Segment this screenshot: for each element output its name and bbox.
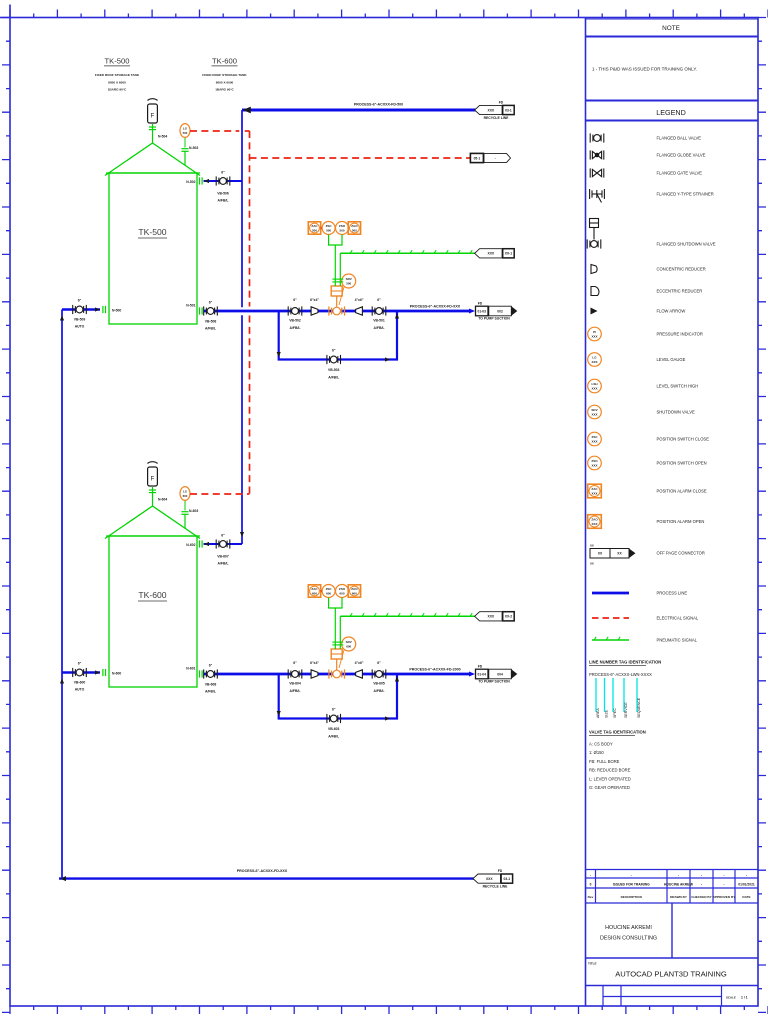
- svg-text:1 - THIS P&ID WAS ISSUED FOR T: 1 - THIS P&ID WAS ISSUED FOR TRAINING ON…: [592, 67, 697, 72]
- svg-text:CHECKED BY: CHECKED BY: [691, 895, 712, 899]
- svg-text:6": 6": [209, 301, 213, 305]
- svg-text:A/FB/L: A/FB/L: [374, 326, 385, 330]
- svg-text:AUTOCAD PLANT3D TRAINING: AUTOCAD PLANT3D TRAINING: [615, 970, 727, 979]
- svg-text:XXX: XXX: [488, 615, 495, 619]
- svg-text:XXX: XXX: [591, 412, 597, 416]
- flame arrestor TK-600: [148, 462, 158, 486]
- svg-text:VB-502: VB-502: [289, 319, 301, 323]
- svg-text:SPEC: SPEC: [613, 708, 617, 718]
- valve VB-604: [288, 669, 302, 678]
- pneumatic signal line: [340, 615, 477, 617]
- svg-text:PNEUMATIC SIGNAL: PNEUMATIC SIGNAL: [657, 638, 698, 643]
- svg-text:4"x6": 4"x6": [355, 661, 364, 665]
- valve VB-508: [204, 306, 218, 315]
- svg-text:-: -: [723, 883, 724, 887]
- nozzle N-503: [184, 151, 186, 165]
- valve VB-607: [216, 539, 230, 548]
- svg-text:-: -: [701, 883, 702, 887]
- nozzle N-504: [152, 124, 154, 143]
- legend flow arrow: [591, 308, 598, 315]
- position alarm open ZAO-600: [348, 585, 360, 597]
- off page connector bottom recycle: [473, 874, 501, 883]
- svg-text:6": 6": [332, 708, 336, 712]
- position switch open ZSO-500: [336, 222, 349, 235]
- svg-text:XXX: XXX: [591, 522, 597, 526]
- svg-text:RECYCLE LINE: RECYCLE LINE: [483, 884, 509, 888]
- svg-text:APPROVED BY: APPROVED BY: [713, 895, 736, 899]
- nozzle N-604: [152, 487, 154, 506]
- wire vertical recycle header: [241, 110, 243, 307]
- svg-text:SIZE: SIZE: [605, 709, 609, 718]
- svg-text:F: F: [151, 114, 155, 120]
- svg-text:-: -: [590, 873, 591, 877]
- svg-text:600: 600: [352, 591, 357, 595]
- NOTE header box: [586, 19, 759, 37]
- svg-text:N-503: N-503: [189, 146, 198, 150]
- svg-text:600: 600: [312, 591, 317, 595]
- wire auto inlet TK-600: [62, 671, 100, 673]
- svg-text:N-601: N-601: [186, 667, 195, 671]
- legend position switch close: [588, 432, 602, 446]
- pneumatic links to bubbles: [329, 598, 342, 649]
- svg-text:XXX: XXX: [486, 877, 493, 881]
- svg-text:PROCESS-6"-ACXXX-FD-XXX: PROCESS-6"-ACXXX-FD-XXX: [237, 869, 288, 873]
- svg-text:004: 004: [497, 672, 503, 676]
- wire bypass TK-600: [279, 674, 397, 719]
- nozzle N-501: [200, 307, 203, 314]
- legend process line: [592, 592, 629, 595]
- svg-text:01-03: 01-03: [478, 309, 487, 313]
- position alarm close ZAC-600: [308, 585, 320, 597]
- svg-text:FIXED ROOF STORAGE TANK: FIXED ROOF STORAGE TANK: [95, 73, 140, 77]
- svg-text:XXX: XXX: [591, 386, 597, 390]
- svg-text:XXX: XXX: [488, 252, 495, 256]
- svg-text:A/FB/L: A/FB/L: [218, 562, 229, 566]
- svg-text:A/FB/L: A/FB/L: [328, 735, 339, 739]
- svg-text:PROCESS-6"-ACXXX-FD-XXX: PROCESS-6"-ACXXX-FD-XXX: [410, 305, 461, 309]
- svg-text:NOTE: NOTE: [662, 25, 680, 32]
- svg-text:6": 6": [332, 349, 336, 353]
- svg-text:500: 500: [183, 131, 188, 135]
- flame arrestor TK-500: [148, 99, 158, 123]
- svg-text:XX-2: XX-2: [505, 615, 512, 619]
- svg-text:FIXED ROOF STORAGE TANK: FIXED ROOF STORAGE TANK: [202, 73, 247, 77]
- svg-text:VB-605: VB-605: [373, 682, 385, 686]
- svg-text:TO PUMP SUCTION: TO PUMP SUCTION: [478, 680, 510, 684]
- signal link: [321, 590, 322, 592]
- valve VB-502: [288, 306, 302, 315]
- svg-text:500: 500: [312, 228, 317, 232]
- svg-text:XXX: XXX: [591, 360, 597, 364]
- svg-text:TO PUMP SUCTION: TO PUMP SUCTION: [478, 317, 510, 321]
- svg-text:POSITION ALARM CLOSE: POSITION ALARM CLOSE: [657, 489, 707, 494]
- svg-text:XX: XX: [590, 544, 594, 548]
- wire top recycle process line: [242, 109, 478, 112]
- svg-text:500: 500: [346, 281, 351, 285]
- svg-text:FLOW ARROW: FLOW ARROW: [657, 309, 686, 314]
- LEGEND header box: [586, 101, 759, 121]
- revision table: [586, 870, 759, 904]
- svg-text:A/FB/L: A/FB/L: [218, 199, 229, 203]
- wire outlet TK-600: [204, 673, 471, 676]
- wire bypass TK-500: [279, 311, 397, 360]
- nozzle N-600: [95, 670, 100, 674]
- svg-text:AUTO: AUTO: [75, 325, 85, 329]
- svg-text:-: -: [631, 873, 632, 877]
- off page connector pneumatic: [475, 249, 503, 258]
- svg-text:8000 X 6000: 8000 X 6000: [216, 81, 234, 85]
- svg-text:A: CS BODY: A: CS BODY: [589, 742, 613, 747]
- legend off page connector: [590, 549, 610, 559]
- line number leaders: [596, 678, 637, 712]
- svg-text:VB-604: VB-604: [289, 682, 301, 686]
- svg-text:500: 500: [339, 228, 344, 232]
- legend flanged gate valve: [590, 168, 604, 177]
- svg-text:600: 600: [339, 591, 344, 595]
- svg-text:VB-501: VB-501: [373, 319, 385, 323]
- svg-text:FD: FD: [478, 301, 483, 305]
- off page connector top recycle: [475, 105, 503, 114]
- svg-text:002: 002: [497, 309, 503, 313]
- svg-text:SCALE: SCALE: [726, 996, 736, 1000]
- shutdown valve SDV-600: [329, 669, 345, 678]
- nozzle N-601: [200, 670, 203, 677]
- valve VB-506: [216, 176, 230, 185]
- svg-text:TK-600: TK-600: [212, 57, 237, 66]
- signal link: [349, 227, 350, 229]
- legend flanged shutdown valve: [590, 219, 599, 240]
- svg-text:A/FB/L: A/FB/L: [328, 376, 339, 380]
- level gauge 600: [180, 487, 190, 501]
- wire inlet TK-600: [204, 543, 243, 545]
- svg-text:PRESSURE INDICATOR: PRESSURE INDICATOR: [657, 332, 703, 337]
- svg-text:DESCRIPTION: DESCRIPTION: [621, 895, 643, 899]
- svg-text:600: 600: [326, 591, 331, 595]
- svg-text:ISSUED FOR TRAINING: ISSUED FOR TRAINING: [613, 883, 650, 887]
- electrical signal from 500: [190, 130, 239, 132]
- svg-text:LEVEL SWITCH HIGH: LEVEL SWITCH HIGH: [657, 384, 699, 389]
- svg-text:A/FB/L: A/FB/L: [205, 327, 216, 331]
- svg-text:05-1: 05-1: [474, 156, 481, 160]
- svg-text:TK-500: TK-500: [138, 227, 166, 237]
- svg-text:FD: FD: [498, 869, 503, 873]
- shutdown valve SDV-500: [329, 306, 345, 315]
- svg-text:N-603: N-603: [189, 509, 198, 513]
- off page connector outlet: [469, 671, 475, 676]
- valve VB-608: [204, 669, 218, 678]
- svg-text:N-600: N-600: [112, 672, 121, 676]
- right panel divider: [585, 18, 587, 1007]
- position switch open ZSO-600: [336, 585, 349, 598]
- legend position alarm close: [588, 484, 602, 498]
- svg-text:A/FB/L: A/FB/L: [290, 689, 301, 693]
- nozzle N-502: [204, 179, 209, 183]
- svg-text:FB: FULL BORE: FB: FULL BORE: [589, 759, 620, 764]
- svg-text:N-602: N-602: [186, 543, 195, 547]
- svg-text:6": 6": [209, 664, 213, 668]
- instrument bubble SDV-500: [339, 287, 344, 305]
- svg-text:POSITION SWITCH CLOSE: POSITION SWITCH CLOSE: [657, 437, 710, 442]
- svg-text:FLANGED GATE VALVE: FLANGED GATE VALVE: [657, 171, 703, 176]
- svg-text:ECCENTRIC REDUCER: ECCENTRIC REDUCER: [657, 289, 703, 294]
- svg-text:VB-600: VB-600: [74, 681, 86, 685]
- legend concentric reducer: [591, 265, 597, 274]
- svg-text:N-504: N-504: [158, 135, 167, 139]
- svg-text:DESIGN CONSULTING: DESIGN CONSULTING: [600, 936, 657, 942]
- legend level gauge: [588, 353, 602, 367]
- svg-text:1BARG 90°C: 1BARG 90°C: [108, 88, 127, 92]
- svg-text:03-1: 03-1: [504, 877, 511, 881]
- svg-text:LEVEL GAUGE: LEVEL GAUGE: [657, 357, 686, 362]
- svg-text:0: 0: [590, 883, 592, 887]
- legend flanged globe valve: [590, 150, 604, 159]
- svg-text:-: -: [701, 873, 702, 877]
- svg-text:RB: REDUCED BORE: RB: REDUCED BORE: [589, 768, 631, 773]
- pneumatic links to bubbles: [329, 235, 342, 286]
- nozzle N-603: [184, 514, 186, 528]
- svg-text:VB-509: VB-509: [74, 318, 86, 322]
- electrical signal to off page: [250, 157, 471, 159]
- concentric reducer 6x4: [311, 670, 318, 678]
- electrical signal trunk vertical: [249, 131, 251, 307]
- legend position switch open: [588, 456, 602, 470]
- svg-text:6": 6": [78, 299, 82, 303]
- svg-text:PROCESS-6"-ACXXX-FD-2000: PROCESS-6"-ACXXX-FD-2000: [409, 668, 460, 672]
- svg-text:DRAWN BY: DRAWN BY: [670, 895, 688, 899]
- position alarm close ZAC-500: [308, 222, 320, 234]
- svg-text:600: 600: [183, 494, 188, 498]
- svg-text:-: -: [746, 873, 747, 877]
- svg-text:6": 6": [221, 171, 225, 175]
- svg-text:L: LEVER OPERATED: L: LEVER OPERATED: [589, 776, 631, 781]
- svg-text:FD: FD: [478, 664, 483, 668]
- tank TK-600: [105, 506, 200, 687]
- svg-text:VB-607: VB-607: [217, 555, 229, 559]
- off page connector electrical signal: [470, 153, 483, 162]
- concentric reducer 4x6: [356, 307, 363, 315]
- svg-text:03-1: 03-1: [505, 108, 512, 112]
- level gauge 500: [180, 124, 190, 138]
- svg-text:HOUCINE AKREMI: HOUCINE AKREMI: [605, 925, 652, 931]
- legend electrical signal: [592, 617, 629, 619]
- svg-text:VB-506: VB-506: [217, 192, 229, 196]
- off page connector outlet: [469, 308, 475, 313]
- bottom strip boxes: [603, 986, 722, 1007]
- valve VB-509 AUTO: [73, 305, 87, 314]
- svg-text:SHUTDOWN VALVE: SHUTDOWN VALVE: [657, 410, 696, 415]
- svg-text:FLANGED Y-TYPE STRAINER: FLANGED Y-TYPE STRAINER: [657, 192, 714, 197]
- actuator SDV-500: [331, 286, 342, 296]
- svg-text:6": 6": [221, 534, 225, 538]
- legend pressure indicator: [588, 327, 602, 341]
- tank TK-500: [105, 143, 200, 324]
- wire bottom recycle process line: [59, 877, 476, 879]
- svg-text:OFF PAGE CONNECTOR: OFF PAGE CONNECTOR: [657, 551, 705, 556]
- off page connector pneumatic: [475, 612, 503, 621]
- svg-text:CONCENTRIC REDUCER: CONCENTRIC REDUCER: [657, 267, 706, 272]
- svg-text:DATE: DATE: [742, 895, 750, 899]
- valve VB-605: [372, 669, 386, 678]
- svg-text:500: 500: [352, 228, 357, 232]
- svg-text:POSITION SWITCH OPEN: POSITION SWITCH OPEN: [657, 461, 707, 466]
- svg-text:A/FB/L: A/FB/L: [290, 326, 301, 330]
- wire inlet TK-500: [204, 180, 243, 182]
- svg-text:6": 6": [293, 298, 297, 302]
- position switch close ZSC-500: [322, 222, 335, 235]
- svg-text:-: -: [723, 873, 724, 877]
- svg-text:SEQUENCE: SEQUENCE: [637, 697, 641, 718]
- svg-text:AUTO: AUTO: [75, 688, 85, 692]
- svg-text:POSITION ALARM OPEN: POSITION ALARM OPEN: [657, 519, 705, 524]
- svg-text:N-502: N-502: [186, 180, 195, 184]
- legend level switch high: [588, 379, 602, 393]
- svg-text:XXX: XXX: [591, 439, 597, 443]
- valve VB-501: [372, 306, 386, 315]
- svg-text:6": 6": [377, 661, 381, 665]
- svg-text:VB-603: VB-603: [328, 727, 340, 731]
- svg-text:6": 6": [293, 661, 297, 665]
- svg-text:N-604: N-604: [158, 498, 167, 502]
- svg-text:A/FB/L: A/FB/L: [374, 689, 385, 693]
- legend pneumatic signal: [592, 639, 629, 641]
- svg-text:1: Ø150: 1: Ø150: [589, 750, 604, 755]
- svg-text:01-04: 01-04: [478, 672, 487, 676]
- legend shutdown valve bubble: [588, 405, 602, 419]
- svg-text:TITLE: TITLE: [588, 962, 597, 966]
- legend eccentric reducer: [591, 287, 599, 296]
- svg-text:1BARG 90°C: 1BARG 90°C: [215, 88, 234, 92]
- wire left riser: [61, 310, 63, 879]
- svg-text:LINE NUMBER TAG IDENTIFICATION: LINE NUMBER TAG IDENTIFICATION: [589, 660, 661, 665]
- svg-text:AREA: AREA: [596, 708, 600, 718]
- svg-text:1 / 1: 1 / 1: [741, 996, 748, 1000]
- svg-text:VB-508: VB-508: [205, 320, 217, 324]
- svg-text:XXX: XXX: [591, 491, 597, 495]
- svg-text:G: GEAR OPERATED: G: GEAR OPERATED: [589, 785, 630, 790]
- nozzle N-602: [204, 542, 209, 546]
- svg-text:N-500: N-500: [112, 309, 121, 313]
- svg-text:500: 500: [326, 228, 331, 232]
- nozzle N-500: [95, 307, 100, 311]
- svg-text:A/FB/L: A/FB/L: [205, 690, 216, 694]
- svg-text:TK-600: TK-600: [138, 590, 166, 600]
- legend position alarm open: [588, 515, 602, 529]
- concentric reducer 6x4: [311, 307, 318, 315]
- wire outlet TK-500: [204, 310, 471, 313]
- svg-text:PROCESS-6"-ACXXX-LWN-XXXX: PROCESS-6"-ACXXX-LWN-XXXX: [589, 672, 652, 677]
- pneumatic flanges above actuator: [332, 279, 338, 282]
- svg-text:-: -: [678, 873, 679, 877]
- svg-text:VALVE TAG IDENTIFICATION: VALVE TAG IDENTIFICATION: [589, 730, 646, 735]
- svg-text:PROCESS LINE: PROCESS LINE: [657, 591, 688, 596]
- svg-text:FLANGED BALL VALVE: FLANGED BALL VALVE: [657, 136, 702, 141]
- svg-text:FLANGED SHUTDOWN VALVE: FLANGED SHUTDOWN VALVE: [657, 242, 716, 247]
- svg-text:RECYCLE LINE: RECYCLE LINE: [484, 116, 510, 120]
- svg-text:XX-1: XX-1: [505, 252, 512, 256]
- position alarm open ZAO-500: [348, 222, 360, 234]
- position switch close ZSC-600: [322, 585, 335, 598]
- signal link: [349, 590, 350, 592]
- svg-text:VB-608: VB-608: [205, 683, 217, 687]
- svg-text:-: -: [495, 156, 496, 160]
- svg-text:SERVICE: SERVICE: [624, 702, 628, 718]
- instrument bubble SDV-600: [339, 650, 344, 668]
- svg-text:01/01/2021: 01/01/2021: [738, 883, 755, 887]
- electrical signal from 600: [190, 493, 250, 495]
- valve VB-503: [327, 355, 341, 364]
- actuator SDV-600: [331, 649, 342, 659]
- company block: [586, 903, 759, 958]
- legend flanged ball valve: [590, 133, 604, 142]
- valve VB-600 AUTO: [73, 668, 87, 677]
- pneumatic flanges above actuator: [332, 642, 338, 645]
- svg-text:FLANGED GLOBE VALVE: FLANGED GLOBE VALVE: [657, 153, 706, 158]
- svg-text:600: 600: [346, 644, 351, 648]
- svg-text:N-501: N-501: [186, 304, 195, 308]
- svg-text:XX: XX: [590, 562, 594, 566]
- svg-text:6": 6": [78, 662, 82, 666]
- svg-text:XXX: XXX: [591, 334, 597, 338]
- svg-text:TK-500: TK-500: [105, 57, 130, 66]
- svg-text:Rev: Rev: [588, 895, 594, 899]
- svg-text:LEGEND: LEGEND: [656, 108, 686, 117]
- pneumatic signal line: [340, 252, 477, 254]
- svg-text:6"x4": 6"x4": [310, 661, 319, 665]
- svg-text:XXX: XXX: [591, 463, 597, 467]
- wire auto inlet TK-500: [62, 308, 100, 310]
- svg-text:6": 6": [377, 298, 381, 302]
- valve VB-603: [327, 714, 341, 723]
- svg-text:FD: FD: [499, 100, 504, 104]
- svg-text:8000 X 6000: 8000 X 6000: [108, 81, 126, 85]
- svg-text:PROCESS-6"-ACXXX-FD-500: PROCESS-6"-ACXXX-FD-500: [354, 103, 403, 107]
- concentric reducer 4x6: [356, 670, 363, 678]
- legend flanged y-type strainer: [590, 189, 605, 203]
- svg-text:4"x6": 4"x6": [355, 298, 364, 302]
- svg-text:6"x4": 6"x4": [310, 298, 319, 302]
- svg-text:XXX: XXX: [488, 108, 495, 112]
- svg-text:VB-503: VB-503: [328, 368, 340, 372]
- svg-text:F: F: [151, 477, 155, 483]
- svg-text:HOUCINE AKREMI: HOUCINE AKREMI: [664, 883, 693, 887]
- signal link: [321, 227, 322, 229]
- svg-text:ELECTRICAL SIGNAL: ELECTRICAL SIGNAL: [657, 616, 699, 621]
